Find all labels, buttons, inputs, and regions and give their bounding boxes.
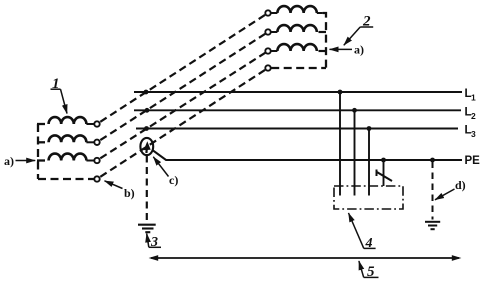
wire row2 coil to terminal [86, 141, 94, 143]
label 4 leader [349, 213, 364, 248]
winding group 2 terminal circle row1 [265, 10, 270, 15]
disconnect link on PE drop [376, 170, 378, 177]
junction dot L3 drop [367, 126, 372, 131]
wire row1 coil to terminal [86, 123, 94, 125]
label c leader [153, 157, 168, 177]
terminal circle row4 (b) [94, 176, 99, 181]
dashed link D3 [100, 53, 265, 159]
dashed link D4 [100, 70, 265, 177]
winding 2 row4 dashed neutral [271, 67, 326, 69]
wire terminal to coil row2 [271, 31, 278, 33]
svg-text:d): d) [455, 178, 466, 192]
junction dot PE drop [381, 158, 386, 163]
junction dot PE right [430, 158, 435, 163]
arrow inside neutral circle [145, 147, 148, 153]
dimension line 5 [151, 257, 459, 259]
terminal circle row3 [94, 158, 99, 163]
neutral point circle c [140, 138, 153, 155]
wire PE to box [383, 160, 385, 186]
svg-text:2: 2 [471, 111, 476, 121]
bracket stub row2 [37, 141, 45, 143]
label d leader [435, 189, 455, 200]
svg-text:3: 3 [471, 129, 476, 139]
svg-text:a): a) [4, 154, 14, 168]
bracket stub right row3 [319, 50, 327, 52]
terminal circle row1 [94, 121, 99, 126]
junction dot D2-L2 [145, 108, 150, 113]
winding 2 coil row 3 [277, 44, 316, 51]
wire L1 to box [339, 92, 341, 196]
wire row3 coil to terminal [86, 160, 94, 162]
junction dot L1 drop [338, 90, 343, 95]
svg-text:1: 1 [471, 93, 476, 103]
label 3 leader [147, 234, 149, 248]
label 2 leader [344, 27, 360, 45]
svg-text:3: 3 [150, 235, 158, 250]
junction dot L2 drop [352, 108, 357, 113]
winding 2 right dashed bracket [317, 12, 323, 14]
wire L3 to box [368, 129, 370, 196]
junction dot D1-L1 [144, 90, 149, 95]
svg-text:c): c) [169, 173, 178, 187]
dashed link D2 [100, 34, 265, 140]
earth electrode symbol 3 [138, 224, 156, 226]
dashed link D1 [100, 15, 265, 122]
winding 2 coil row 1 [277, 6, 316, 13]
line PE [153, 150, 462, 160]
winding 1 coil row 3 [49, 154, 87, 161]
winding group 2 terminal circle row4 [265, 65, 270, 70]
winding group 2 terminal circle row2 [265, 29, 270, 34]
svg-text:5: 5 [367, 264, 375, 280]
svg-text:1: 1 [52, 76, 60, 92]
earthing conductor 3 dashed [146, 156, 148, 223]
svg-text:b): b) [124, 186, 135, 200]
equipment box 4 dash-dot [334, 186, 403, 209]
wire row4 dashed neutral [38, 178, 94, 180]
wire terminal to coil row3 [271, 50, 278, 52]
earth electrode symbol d [425, 221, 440, 223]
line L3 [136, 128, 458, 130]
label a right arrow [330, 48, 353, 50]
bracket stub row3 [37, 159, 45, 161]
winding 1 coil row 1 [49, 117, 87, 124]
terminal circle row2 [94, 140, 99, 145]
winding group 1 left dashed bracket [37, 124, 39, 179]
label b leader [105, 181, 123, 189]
label 1 leader [61, 89, 68, 113]
svg-text:4: 4 [365, 236, 373, 251]
svg-text:2: 2 [362, 14, 371, 30]
bracket stub row1 [37, 123, 45, 125]
label a left arrow [16, 160, 36, 162]
junction dot D3-L3 [144, 126, 149, 131]
earthing conductor d dashed [432, 162, 434, 220]
wire L2 to box [354, 110, 356, 195]
line L1 [134, 91, 462, 93]
wire terminal to coil row1 [271, 12, 278, 14]
winding group 2 terminal circle row3 [265, 48, 270, 53]
bracket stub right row2 [319, 31, 327, 33]
svg-text:a): a) [354, 43, 364, 57]
label 5 leader [359, 261, 364, 277]
line L2 [134, 109, 461, 111]
winding 2 coil row 2 [277, 25, 316, 32]
svg-text:PE: PE [465, 155, 481, 167]
winding 1 coil row 2 [49, 135, 87, 142]
